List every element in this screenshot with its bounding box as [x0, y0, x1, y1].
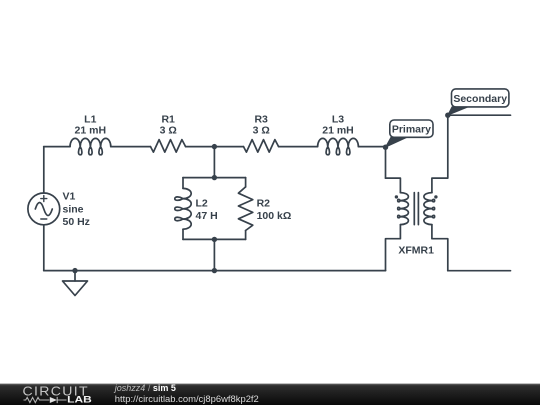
wire top-left corner to L1 — [44, 146, 70, 148]
wire parallel bar down to bottom rail — [213, 239, 215, 270]
svg-text:V1: V1 — [63, 190, 76, 202]
wire parallel top bar — [183, 177, 246, 179]
wire V1 to bottom rail — [43, 225, 45, 271]
wire R2 bottom lead — [245, 231, 247, 240]
svg-text:50 Hz: 50 Hz — [63, 216, 90, 228]
CircuitLab logo circuit glyph — [24, 397, 67, 403]
wire node A to R3 — [214, 146, 243, 148]
wire primary top step — [386, 178, 401, 193]
wire L3 to primary node — [358, 146, 385, 148]
wire parallel bottom bar — [183, 238, 246, 240]
svg-text:21 mH: 21 mH — [322, 125, 354, 137]
XFMR1 primary winding — [398, 193, 409, 225]
wire primary bottom step — [386, 225, 401, 271]
svg-text:L1: L1 — [84, 113, 96, 125]
svg-text:LAB: LAB — [67, 395, 92, 405]
XFMR1 primary phase dot — [395, 195, 398, 198]
ground lead — [74, 271, 76, 281]
svg-text:XFMR1: XFMR1 — [398, 245, 434, 257]
wire node A down to parallel bar — [213, 147, 215, 178]
inductor L2 coil — [175, 188, 191, 229]
wire secondary top step — [432, 115, 448, 192]
wire bottom rail — [44, 270, 386, 272]
primary node junction — [383, 145, 388, 150]
wire L1 to R1 — [111, 146, 151, 148]
footer bar — [0, 384, 540, 405]
svg-text:100 kΩ: 100 kΩ — [257, 210, 292, 222]
V1 sine wave — [35, 203, 52, 216]
svg-text:http://circuitlab.com/cj8p6wf8: http://circuitlab.com/cj8p6wf8kp2f2 — [115, 394, 259, 404]
svg-text:R1: R1 — [161, 113, 175, 125]
bottom rail junction — [212, 268, 217, 273]
inductor L1 coil — [70, 138, 111, 154]
resistor R1 zigzag — [151, 140, 186, 153]
svg-text:21 mH: 21 mH — [75, 125, 107, 137]
svg-text:Primary: Primary — [392, 124, 431, 136]
parallel bottom junction — [212, 237, 217, 242]
resistor R3 zigzag — [244, 140, 279, 153]
wire secondary top out — [448, 114, 511, 116]
svg-text:3 Ω: 3 Ω — [253, 125, 270, 137]
wire primary node down — [385, 147, 387, 178]
svg-text:47 H: 47 H — [196, 210, 218, 222]
ground junction — [72, 268, 77, 273]
ground symbol triangle — [63, 281, 88, 296]
svg-text:L3: L3 — [332, 113, 344, 125]
V1 minus sign — [41, 218, 47, 220]
svg-text:sine: sine — [63, 203, 84, 215]
XFMR1 secondary phase dot — [434, 195, 437, 198]
inductor L3 coil — [318, 138, 359, 154]
XFMR1 secondary winding — [424, 193, 435, 225]
node flag Secondary — [448, 89, 509, 115]
svg-text:R2: R2 — [257, 197, 271, 209]
wire secondary bottom step — [432, 225, 448, 271]
resistor R2 zigzag — [238, 187, 252, 231]
svg-text:L2: L2 — [196, 197, 208, 209]
parallel top junction — [212, 175, 217, 180]
svg-text:R3: R3 — [254, 113, 268, 125]
node flag Primary — [386, 120, 434, 147]
svg-text:Secondary: Secondary — [453, 93, 507, 105]
voltage source V1 circle — [28, 193, 60, 225]
wire secondary bottom out — [448, 270, 511, 272]
wire R2 top lead — [245, 178, 247, 187]
wire top rail down to V1 — [43, 147, 45, 193]
secondary node junction — [445, 113, 450, 118]
XFMR1 core lines — [414, 193, 418, 225]
V1 plus sign — [41, 196, 47, 202]
svg-text:joshzz4 / sim 5: joshzz4 / sim 5 — [114, 383, 176, 393]
wire L2 top lead — [182, 178, 184, 189]
wire R3 to L3 — [279, 146, 318, 148]
node A junction — [212, 144, 217, 149]
wire R1 to node A — [186, 146, 215, 148]
wire L2 bottom lead — [182, 229, 184, 239]
svg-text:3 Ω: 3 Ω — [160, 125, 177, 137]
